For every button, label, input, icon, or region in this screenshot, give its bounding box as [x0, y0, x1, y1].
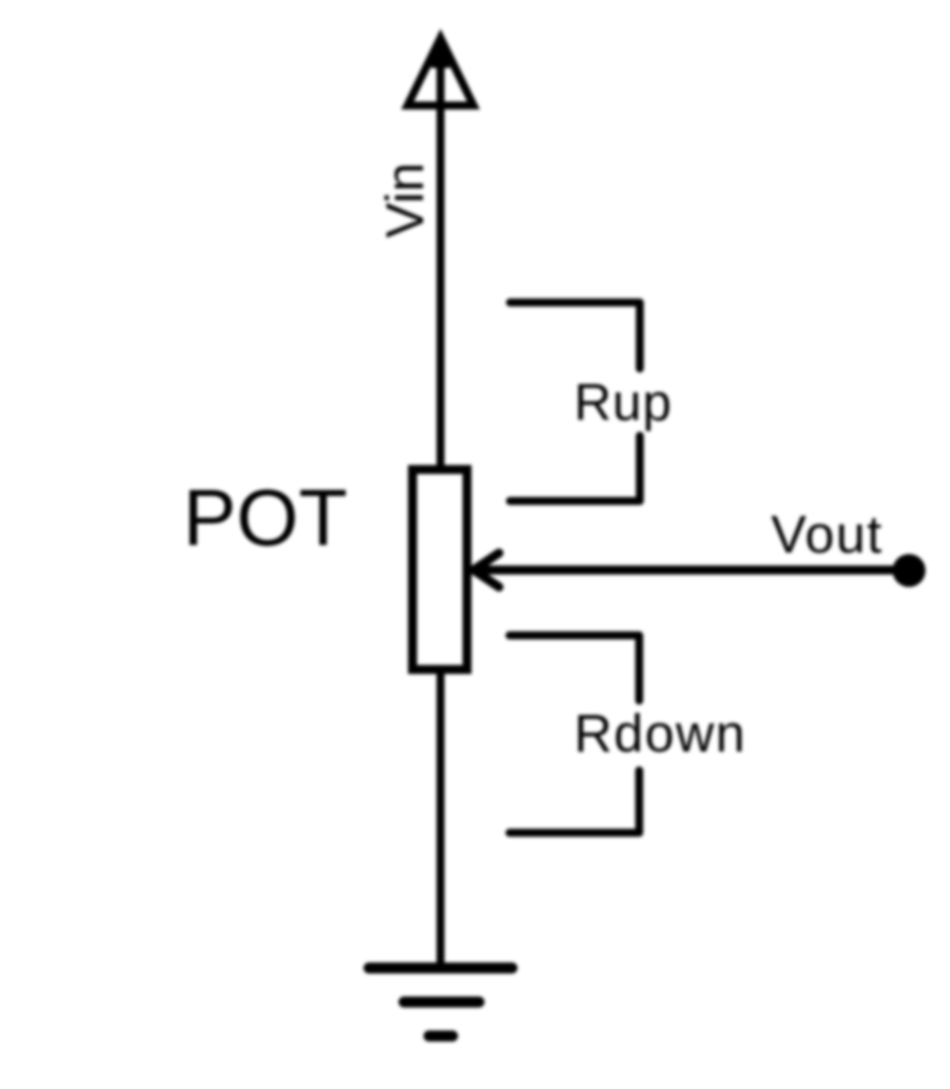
- ground bar 3: [429, 1031, 453, 1042]
- svg-text:Rdown: Rdown: [574, 705, 746, 764]
- svg-text:Vout: Vout: [771, 506, 883, 565]
- wire Vin to POT top: [437, 50, 445, 469]
- wire wiper to Vout: [474, 566, 909, 575]
- svg-text:Rup: Rup: [574, 374, 672, 432]
- wire POT bottom to ground: [437, 669, 445, 968]
- bracket Rup: [510, 303, 640, 502]
- svg-text:Vin: Vin: [376, 162, 435, 238]
- bracket Rdown: [510, 635, 640, 832]
- wiper arrowhead: [474, 553, 500, 587]
- ground bar 1: [369, 963, 512, 974]
- potentiometer POT body: [413, 470, 468, 670]
- node Vout dot: [893, 554, 926, 587]
- power arrow solid head: [431, 32, 450, 68]
- power arrow Vin (open triangle): [408, 38, 474, 106]
- svg-text:POT: POT: [183, 473, 347, 562]
- ground bar 2: [404, 997, 479, 1008]
